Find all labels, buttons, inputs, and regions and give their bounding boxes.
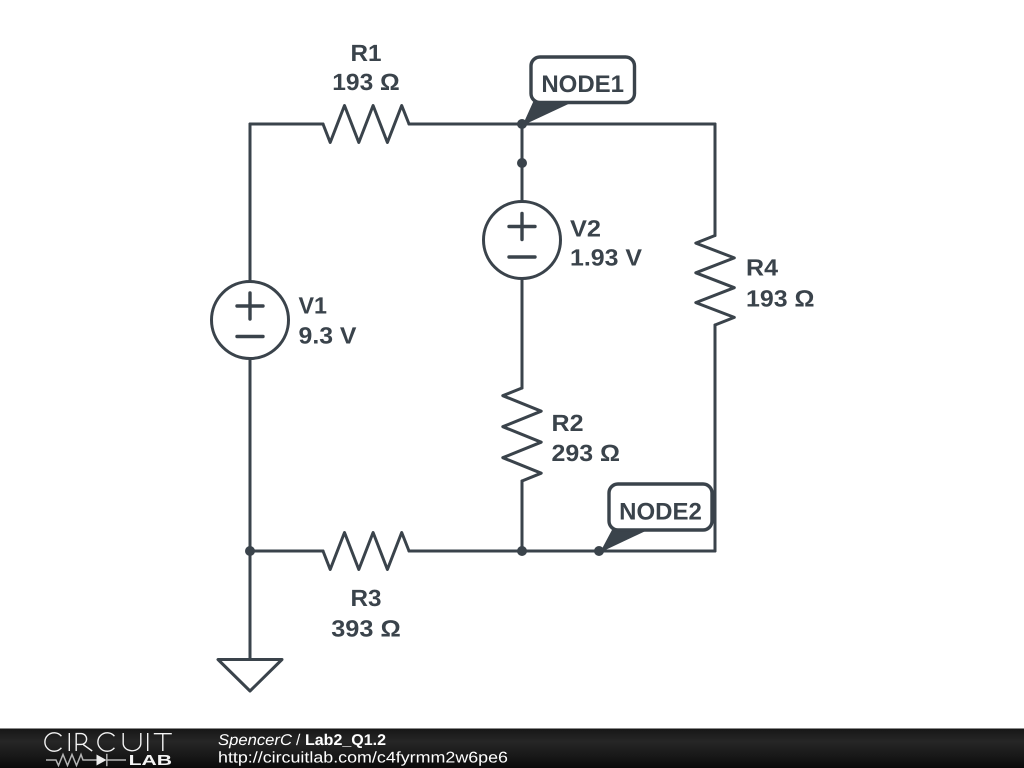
wire bottom-left to R3 bbox=[250, 550, 323, 553]
junction dot node2 bbox=[594, 546, 604, 556]
wire ground stem bbox=[249, 551, 252, 660]
wire R2 to bottom bbox=[521, 481, 524, 551]
wire V2 to R2 bbox=[521, 279, 524, 389]
footer bar bbox=[0, 729, 1024, 768]
svg-text:/: / bbox=[296, 732, 301, 749]
node flag NODE1 bbox=[523, 57, 635, 126]
logo CIRCUIT wordmark bbox=[45, 733, 172, 751]
resistor R4 bbox=[696, 236, 735, 326]
junction dot mid branch bbox=[517, 158, 527, 168]
wire left side lower bbox=[249, 359, 252, 552]
junction dot node1 bbox=[517, 119, 527, 129]
logo zigzag diode line bbox=[46, 754, 126, 766]
svg-text:R1: R1 bbox=[351, 40, 382, 66]
svg-text:293 Ω: 293 Ω bbox=[552, 440, 621, 466]
svg-text:9.3 V: 9.3 V bbox=[299, 323, 357, 349]
voltage source V1 bbox=[212, 282, 289, 359]
ground bbox=[218, 660, 282, 692]
svg-text:NODE1: NODE1 bbox=[541, 71, 624, 98]
svg-text:LAB: LAB bbox=[129, 753, 173, 768]
svg-text:V1: V1 bbox=[299, 293, 328, 319]
resistor R2 bbox=[503, 388, 541, 481]
wire top-left to R1 bbox=[250, 123, 323, 126]
node flag NODE2 bbox=[600, 484, 712, 553]
svg-text:R3: R3 bbox=[351, 585, 382, 611]
junction dot bottom-left bbox=[245, 546, 255, 556]
resistor R3 bbox=[323, 533, 409, 570]
wire R3 to bottom-right corner bbox=[409, 550, 715, 553]
svg-text:1.93 V: 1.93 V bbox=[570, 245, 642, 271]
wire right side lower bbox=[714, 325, 717, 551]
svg-text:NODE2: NODE2 bbox=[619, 499, 702, 526]
logo diode triangle bbox=[97, 755, 107, 766]
svg-text:R4: R4 bbox=[746, 255, 778, 281]
svg-text:http://circuitlab.com/c4fyrmm2: http://circuitlab.com/c4fyrmm2w6pe6 bbox=[218, 750, 508, 767]
wire NODE1 to V2 bbox=[521, 124, 524, 202]
svg-text:V2: V2 bbox=[570, 216, 601, 242]
wire left side upper bbox=[249, 124, 252, 282]
svg-text:393 Ω: 393 Ω bbox=[331, 616, 401, 642]
junction dot bottom-mid bbox=[517, 546, 527, 556]
svg-text:R2: R2 bbox=[552, 410, 584, 436]
resistor R1 bbox=[323, 106, 409, 143]
wire R1 to top-right corner bbox=[409, 123, 715, 126]
svg-text:193 Ω: 193 Ω bbox=[746, 286, 815, 312]
wire right side upper bbox=[714, 124, 717, 236]
svg-text:Lab2_Q1.2: Lab2_Q1.2 bbox=[305, 732, 386, 749]
svg-text:SpencerC: SpencerC bbox=[218, 732, 293, 749]
svg-text:193 Ω: 193 Ω bbox=[332, 69, 400, 95]
voltage source V2 bbox=[484, 202, 561, 279]
